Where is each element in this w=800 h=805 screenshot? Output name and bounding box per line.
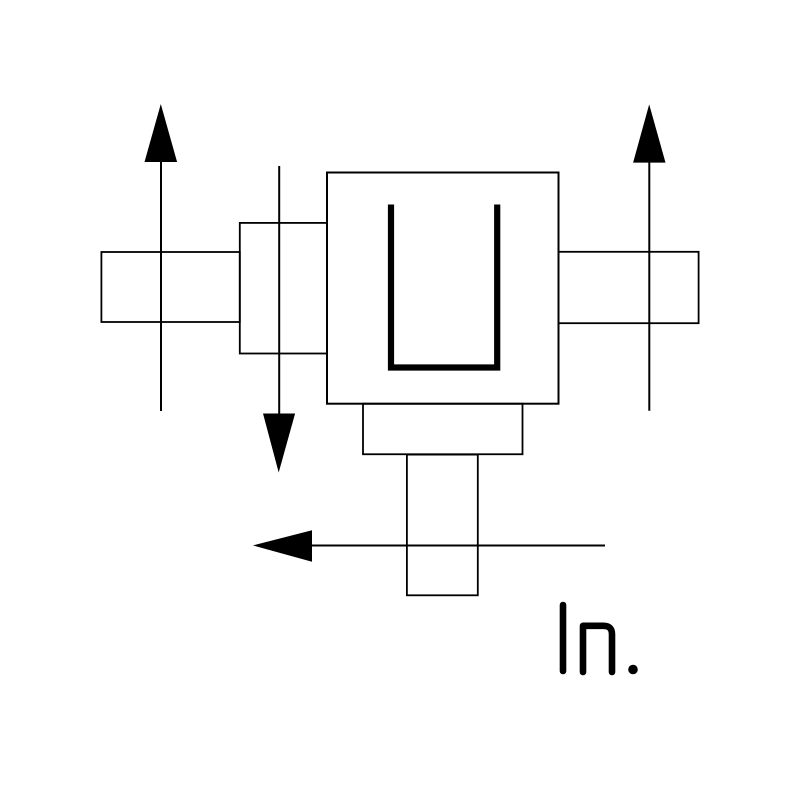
label In. letter n <box>583 626 612 672</box>
left bearing block <box>240 223 327 354</box>
wire: middle vertical arrow line <box>278 166 280 414</box>
arrowhead down (middle) <box>263 414 295 473</box>
left shaft <box>101 252 239 322</box>
label In. letter I <box>560 605 567 671</box>
wire: right vertical arrow line <box>648 161 650 411</box>
right shaft <box>559 252 699 323</box>
gearbox housing (central box) <box>327 173 559 404</box>
arrowhead left (bottom) <box>253 530 312 562</box>
arrowhead up (right) <box>633 104 665 162</box>
wire: left vertical arrow line <box>160 160 162 411</box>
label In. period <box>628 665 638 675</box>
U mark inside housing <box>391 205 497 368</box>
wire: bottom horizontal arrow line <box>310 545 605 547</box>
bottom flange (tier under housing) <box>363 404 523 455</box>
arrowhead up (left) <box>145 104 178 162</box>
bottom shaft <box>407 455 478 596</box>
